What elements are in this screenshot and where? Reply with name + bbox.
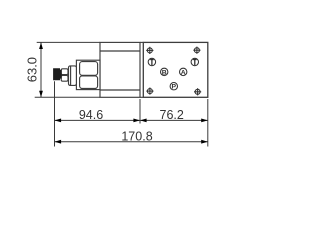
svg-text:P: P [172, 84, 177, 91]
dimension 94.6 line [55, 119, 141, 121]
dimension 76.2 line [140, 119, 208, 121]
svg-text:B: B [162, 69, 167, 76]
svg-text:63.0: 63.0 [24, 57, 39, 82]
svg-text:94.6: 94.6 [79, 108, 103, 122]
dimension 76.2 arrow left [140, 119, 147, 123]
gap top line [140, 41, 144, 43]
bolt hole top-left [146, 47, 153, 54]
port face plate [143, 42, 208, 97]
port A [180, 68, 187, 76]
middle extension line (x=140) [139, 99, 141, 124]
dimension 170.8 line [55, 141, 208, 143]
hex nut (large, side view) [76, 60, 100, 89]
bottom extension line (63.0 lower) [35, 96, 100, 98]
svg-text:A: A [181, 69, 186, 76]
left extension line (x=54.5) [54, 81, 56, 146]
right extension line (x=207.8) [207, 99, 209, 147]
connector block (solid) [54, 69, 62, 80]
dimension 170.8 arrow left [55, 140, 62, 144]
port T left [148, 58, 155, 65]
dimension 76.2 arrow right [201, 119, 208, 123]
valve body block [100, 42, 140, 97]
dimension 63.0 arrow down [39, 91, 43, 98]
bolt hole bottom-left [146, 88, 153, 95]
dimension 63.0 line [40, 42, 42, 97]
adjustment stem nut (stacked) [61, 69, 68, 81]
bolt hole bottom-right [194, 88, 201, 95]
dimension 170.8 arrow right [201, 140, 208, 144]
svg-text:170.8: 170.8 [121, 129, 152, 143]
top extension line (63.0 upper) [37, 41, 100, 43]
svg-text:76.2: 76.2 [160, 108, 184, 122]
dimension 94.6 arrow left [55, 119, 62, 123]
gap bottom line [140, 96, 144, 98]
bolt hole top-right [193, 47, 200, 54]
port B [161, 68, 168, 76]
dimension 94.6 arrow right [133, 119, 140, 123]
port P [170, 83, 177, 91]
port T right [191, 58, 198, 65]
locknut [69, 66, 77, 86]
dimension 63.0 arrow up [39, 42, 43, 49]
